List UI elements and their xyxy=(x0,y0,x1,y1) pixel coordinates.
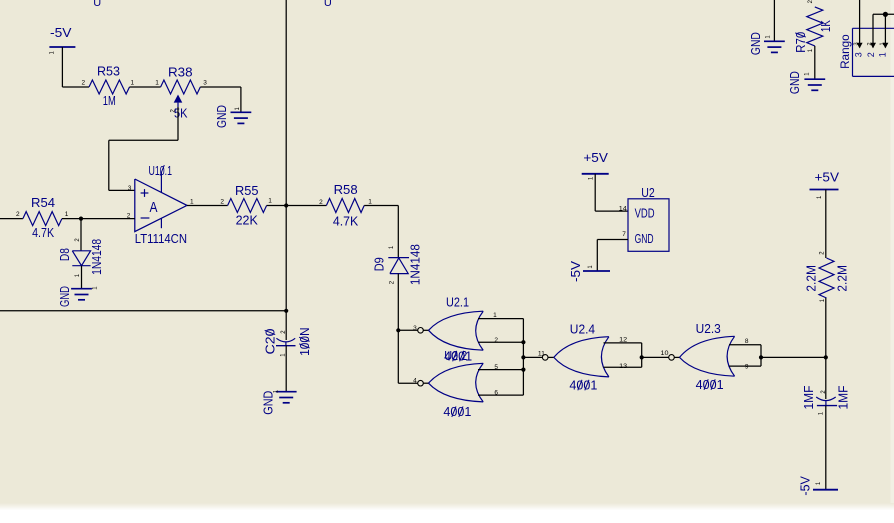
svg-text:3: 3 xyxy=(854,52,864,57)
svg-text:U: U xyxy=(324,0,332,9)
svg-text:1: 1 xyxy=(268,197,272,204)
svg-text:+5V: +5V xyxy=(815,170,840,184)
svg-text:1: 1 xyxy=(368,198,372,205)
svg-text:U2.4: U2.4 xyxy=(570,322,595,336)
svg-text:6: 6 xyxy=(494,389,498,396)
svg-text:3: 3 xyxy=(413,325,417,332)
svg-text:VDD: VDD xyxy=(635,206,655,220)
svg-text:GND: GND xyxy=(635,232,654,246)
svg-text:U2.3: U2.3 xyxy=(696,322,721,336)
svg-text:2: 2 xyxy=(319,199,323,206)
svg-text:1: 1 xyxy=(877,52,887,57)
svg-text:13: 13 xyxy=(619,363,627,370)
svg-text:R58: R58 xyxy=(334,183,358,197)
svg-text:4001: 4001 xyxy=(696,378,724,392)
svg-text:1: 1 xyxy=(65,211,69,218)
svg-text:1: 1 xyxy=(879,42,885,45)
svg-text:5K: 5K xyxy=(174,107,188,121)
svg-text:GND: GND xyxy=(788,71,802,94)
svg-text:2: 2 xyxy=(82,80,86,87)
svg-text:1: 1 xyxy=(493,312,497,319)
svg-text:U2.1: U2.1 xyxy=(446,295,469,309)
svg-text:Rango: Rango xyxy=(840,34,852,69)
svg-text:8: 8 xyxy=(745,338,749,345)
svg-text:-5V: -5V xyxy=(50,26,72,40)
svg-text:12: 12 xyxy=(619,336,627,343)
svg-text:9: 9 xyxy=(745,363,749,370)
svg-text:2: 2 xyxy=(494,337,498,344)
svg-text:1: 1 xyxy=(155,80,159,87)
svg-text:4: 4 xyxy=(413,378,417,385)
svg-text:7: 7 xyxy=(622,231,626,238)
svg-text:U: U xyxy=(93,0,101,9)
svg-text:R53: R53 xyxy=(97,64,120,78)
svg-text:LT1114CN: LT1114CN xyxy=(135,232,187,246)
svg-text:-5V: -5V xyxy=(569,260,583,282)
svg-text:1MF: 1MF xyxy=(802,385,816,409)
svg-text:2: 2 xyxy=(220,199,224,206)
svg-text:3: 3 xyxy=(854,42,860,45)
svg-text:1: 1 xyxy=(131,80,135,87)
svg-text:2: 2 xyxy=(808,0,814,3)
svg-text:4001: 4001 xyxy=(444,350,472,364)
svg-text:10: 10 xyxy=(661,350,669,357)
svg-text:2: 2 xyxy=(866,52,876,57)
svg-text:GND: GND xyxy=(215,105,229,128)
svg-text:3: 3 xyxy=(203,80,207,87)
svg-text:5: 5 xyxy=(494,364,498,371)
svg-text:-5V: -5V xyxy=(799,475,813,495)
svg-text:GND: GND xyxy=(261,391,275,415)
svg-text:D8: D8 xyxy=(58,248,72,261)
svg-text:2.2M: 2.2M xyxy=(836,265,850,292)
svg-text:14: 14 xyxy=(619,205,627,212)
svg-text:11: 11 xyxy=(538,351,545,358)
svg-text:+5V: +5V xyxy=(583,151,608,165)
svg-text:4.7K: 4.7K xyxy=(32,226,55,240)
svg-text:U10.1: U10.1 xyxy=(149,164,173,178)
svg-text:GND: GND xyxy=(58,286,72,307)
svg-text:2: 2 xyxy=(867,42,873,45)
svg-text:R54: R54 xyxy=(31,196,55,210)
svg-text:4.7K: 4.7K xyxy=(333,214,359,228)
svg-text:GND: GND xyxy=(749,32,763,55)
svg-text:1N4148: 1N4148 xyxy=(409,244,423,285)
svg-text:22K: 22K xyxy=(236,213,259,227)
svg-text:1K: 1K xyxy=(819,20,833,33)
svg-text:D9: D9 xyxy=(373,257,387,271)
svg-text:R38: R38 xyxy=(168,65,193,79)
svg-text:2: 2 xyxy=(16,211,20,218)
svg-text:1N4148: 1N4148 xyxy=(90,239,104,275)
svg-text:100N: 100N xyxy=(298,327,312,356)
svg-text:3: 3 xyxy=(128,185,132,192)
svg-text:A: A xyxy=(150,199,158,216)
svg-text:1MF: 1MF xyxy=(837,385,851,409)
svg-text:4001: 4001 xyxy=(569,379,597,393)
svg-text:1M: 1M xyxy=(103,94,116,108)
svg-text:1: 1 xyxy=(190,198,194,205)
svg-text:2.2M: 2.2M xyxy=(805,265,819,292)
svg-text:R55: R55 xyxy=(235,184,259,198)
svg-text:U2: U2 xyxy=(641,186,655,200)
svg-text:4001: 4001 xyxy=(443,405,471,419)
